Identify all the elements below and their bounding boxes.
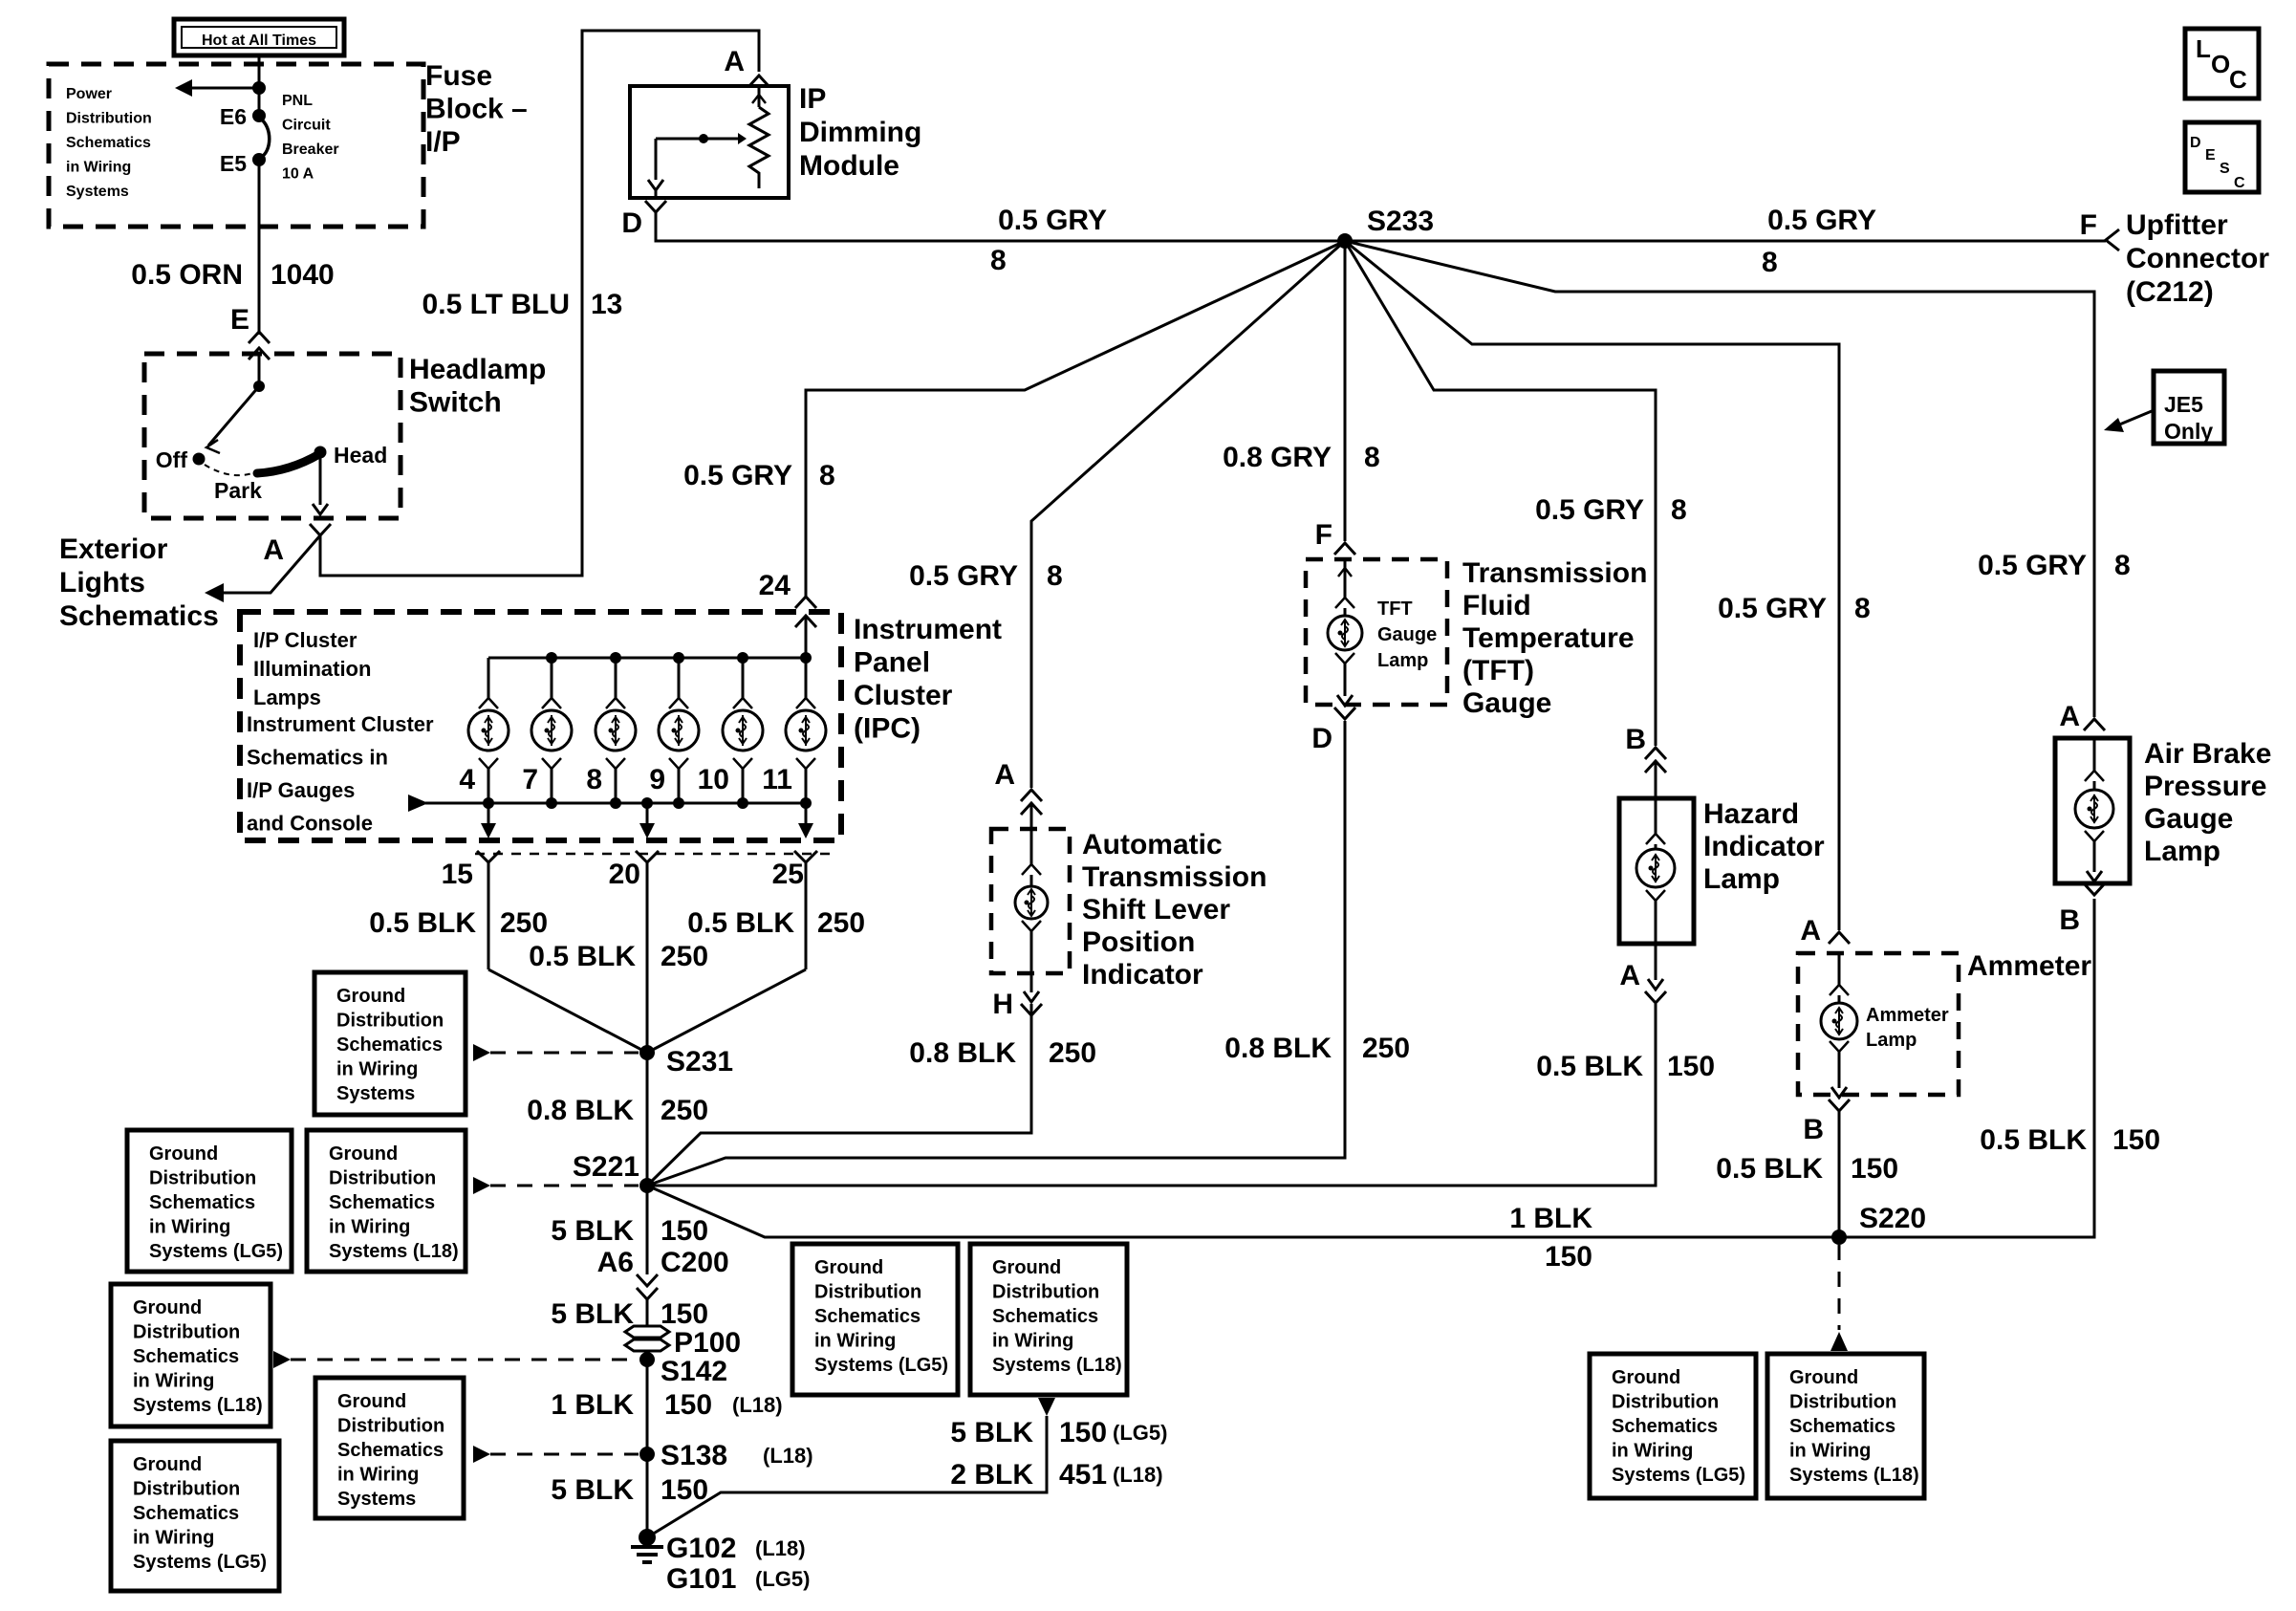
svg-text:Gauge: Gauge: [1377, 624, 1437, 645]
svg-text:A6: A6: [597, 1247, 634, 1278]
svg-text:F: F: [1315, 519, 1332, 551]
svg-text:Head: Head: [334, 443, 387, 468]
svg-text:Lamps: Lamps: [253, 686, 321, 709]
svg-text:F: F: [2080, 209, 2097, 241]
svg-text:150: 150: [1851, 1153, 1898, 1185]
svg-text:Air Brake: Air Brake: [2144, 738, 2271, 770]
svg-text:Systems (L18): Systems (L18): [1789, 1465, 1919, 1486]
svg-text:Ground: Ground: [133, 1454, 202, 1475]
svg-text:20: 20: [609, 859, 640, 890]
svg-text:L: L: [2196, 34, 2211, 63]
svg-text:in Wiring: in Wiring: [66, 160, 131, 176]
svg-text:S142: S142: [661, 1356, 727, 1387]
svg-text:15: 15: [442, 859, 473, 890]
svg-text:I/P: I/P: [425, 126, 461, 158]
svg-text:Ground: Ground: [814, 1257, 883, 1278]
svg-text:Distribution: Distribution: [336, 1011, 444, 1032]
svg-text:Module: Module: [799, 150, 899, 182]
svg-text:in Wiring: in Wiring: [337, 1465, 419, 1486]
svg-text:10 A: 10 A: [282, 166, 314, 183]
svg-text:Distribution: Distribution: [1612, 1392, 1719, 1413]
svg-text:(TFT): (TFT): [1462, 655, 1534, 686]
svg-text:250: 250: [1049, 1037, 1096, 1069]
svg-text:S221: S221: [573, 1151, 639, 1183]
svg-text:150: 150: [661, 1474, 708, 1506]
svg-text:Schematics: Schematics: [1612, 1416, 1718, 1437]
svg-text:C: C: [2229, 65, 2247, 94]
svg-text:TFT: TFT: [1377, 599, 1413, 620]
svg-text:Instrument: Instrument: [854, 614, 1002, 645]
svg-text:C: C: [2234, 175, 2245, 191]
svg-text:Distribution: Distribution: [149, 1168, 256, 1189]
svg-text:150: 150: [661, 1298, 708, 1330]
svg-text:Schematics: Schematics: [992, 1306, 1098, 1327]
svg-text:5 BLK: 5 BLK: [551, 1298, 634, 1330]
svg-text:Schematics: Schematics: [133, 1346, 239, 1367]
svg-text:0.5 GRY: 0.5 GRY: [1978, 550, 2087, 581]
svg-text:A: A: [724, 46, 745, 77]
svg-text:Distribution: Distribution: [814, 1282, 921, 1303]
svg-text:5 BLK: 5 BLK: [950, 1417, 1033, 1448]
svg-text:Systems: Systems: [337, 1489, 416, 1510]
svg-text:0.8 BLK: 0.8 BLK: [909, 1037, 1016, 1069]
svg-text:7: 7: [522, 764, 538, 795]
svg-text:Exterior: Exterior: [59, 533, 168, 565]
svg-text:451: 451: [1059, 1459, 1107, 1491]
svg-text:4: 4: [459, 764, 475, 795]
svg-text:0.5 BLK: 0.5 BLK: [529, 941, 636, 972]
svg-text:250: 250: [500, 907, 548, 939]
svg-text:S: S: [2220, 161, 2230, 177]
svg-text:JE5: JE5: [2164, 392, 2203, 417]
svg-text:Ground: Ground: [337, 1391, 406, 1412]
svg-text:C200: C200: [661, 1247, 729, 1278]
svg-text:Schematics: Schematics: [814, 1306, 921, 1327]
svg-text:D: D: [1311, 723, 1332, 754]
svg-text:Connector: Connector: [2126, 243, 2269, 274]
svg-text:9: 9: [649, 764, 665, 795]
svg-text:Hazard: Hazard: [1703, 798, 1799, 830]
svg-text:Indicator: Indicator: [1703, 831, 1825, 862]
svg-text:(C212): (C212): [2126, 276, 2214, 308]
svg-text:A: A: [263, 534, 284, 566]
svg-text:Ammeter: Ammeter: [1866, 1005, 1949, 1026]
svg-text:A: A: [2059, 701, 2080, 732]
svg-text:E: E: [230, 304, 249, 336]
svg-text:Schematics: Schematics: [149, 1192, 255, 1213]
svg-text:Distribution: Distribution: [1789, 1392, 1896, 1413]
svg-text:Ground: Ground: [992, 1257, 1061, 1278]
svg-text:0.5 LT BLU: 0.5 LT BLU: [422, 289, 570, 320]
svg-text:Transmission: Transmission: [1082, 861, 1267, 893]
svg-text:150: 150: [664, 1389, 712, 1421]
svg-text:0.5 BLK: 0.5 BLK: [1716, 1153, 1823, 1185]
svg-text:Ground: Ground: [149, 1143, 218, 1165]
svg-text:Instrument Cluster: Instrument Cluster: [247, 712, 434, 736]
svg-text:Cluster: Cluster: [854, 680, 953, 711]
svg-text:Automatic: Automatic: [1082, 829, 1223, 860]
svg-text:Ground: Ground: [336, 986, 405, 1007]
svg-text:D: D: [2190, 135, 2201, 151]
svg-text:8: 8: [1047, 560, 1063, 592]
svg-text:Block –: Block –: [425, 94, 528, 125]
svg-text:Panel: Panel: [854, 647, 930, 679]
svg-text:Systems: Systems: [336, 1083, 415, 1104]
svg-text:0.5 GRY: 0.5 GRY: [1535, 494, 1644, 526]
svg-text:Systems: Systems: [66, 184, 129, 200]
svg-text:Fuse: Fuse: [425, 60, 492, 92]
svg-text:Park: Park: [214, 478, 262, 503]
svg-text:24: 24: [759, 570, 791, 601]
svg-text:Schematics: Schematics: [337, 1440, 444, 1461]
svg-text:IP: IP: [799, 83, 826, 115]
svg-text:Off: Off: [156, 447, 188, 472]
svg-text:150: 150: [1059, 1417, 1107, 1448]
svg-text:Lights: Lights: [59, 567, 145, 599]
svg-text:Breaker: Breaker: [282, 142, 339, 158]
svg-text:and Console: and Console: [247, 812, 373, 836]
svg-text:PNL: PNL: [282, 93, 313, 109]
svg-text:0.5 GRY: 0.5 GRY: [683, 460, 792, 491]
svg-text:in Wiring: in Wiring: [1612, 1441, 1693, 1462]
svg-text:B: B: [1625, 724, 1646, 755]
svg-text:0.5 GRY: 0.5 GRY: [909, 560, 1018, 592]
svg-text:S231: S231: [666, 1046, 733, 1078]
svg-text:in Wiring: in Wiring: [133, 1371, 214, 1392]
svg-text:Switch: Switch: [409, 387, 502, 419]
svg-text:I/P Cluster: I/P Cluster: [253, 628, 357, 652]
svg-text:Pressure: Pressure: [2144, 771, 2266, 802]
svg-text:(L18): (L18): [1113, 1463, 1163, 1487]
svg-text:0.5 BLK: 0.5 BLK: [687, 907, 794, 939]
svg-text:A: A: [1800, 915, 1821, 947]
svg-text:A: A: [1619, 960, 1640, 991]
svg-text:Systems (LG5): Systems (LG5): [149, 1241, 283, 1262]
svg-text:8: 8: [1364, 442, 1380, 473]
svg-text:Temperature: Temperature: [1462, 622, 1635, 654]
svg-text:150: 150: [2112, 1124, 2160, 1156]
svg-text:Transmission: Transmission: [1462, 557, 1647, 589]
svg-text:Distribution: Distribution: [329, 1168, 436, 1189]
svg-text:8: 8: [1671, 494, 1687, 526]
svg-text:Fluid: Fluid: [1462, 590, 1531, 621]
svg-text:Indicator: Indicator: [1082, 959, 1203, 991]
svg-text:Distribution: Distribution: [133, 1322, 240, 1343]
svg-text:Ground: Ground: [1612, 1367, 1680, 1388]
svg-text:8: 8: [990, 245, 1007, 276]
svg-text:Hot at All Times: Hot at All Times: [202, 33, 316, 49]
svg-text:8: 8: [2114, 550, 2131, 581]
svg-text:Gauge: Gauge: [1462, 687, 1551, 719]
svg-text:150: 150: [661, 1215, 708, 1247]
svg-text:Schematics: Schematics: [66, 135, 151, 151]
svg-text:B: B: [1803, 1114, 1824, 1145]
svg-text:Schematics: Schematics: [336, 1034, 443, 1056]
svg-text:5 BLK: 5 BLK: [551, 1215, 634, 1247]
svg-text:0.5 BLK: 0.5 BLK: [1536, 1051, 1643, 1082]
svg-text:in Wiring: in Wiring: [1789, 1441, 1871, 1462]
svg-text:150: 150: [1545, 1241, 1592, 1273]
svg-text:Systems (L18): Systems (L18): [133, 1395, 263, 1416]
svg-text:Lamp: Lamp: [1703, 863, 1780, 895]
svg-text:11: 11: [762, 764, 792, 795]
svg-text:8: 8: [819, 460, 835, 491]
svg-text:5 BLK: 5 BLK: [551, 1474, 634, 1506]
svg-text:Circuit: Circuit: [282, 118, 331, 134]
svg-text:Lamp: Lamp: [2144, 836, 2220, 867]
svg-text:B: B: [2059, 904, 2080, 936]
svg-text:8: 8: [586, 764, 602, 795]
svg-text:Schematics: Schematics: [329, 1192, 435, 1213]
svg-text:0.5 GRY: 0.5 GRY: [1767, 205, 1876, 236]
svg-text:Shift Lever: Shift Lever: [1082, 894, 1230, 925]
svg-text:H: H: [992, 989, 1013, 1020]
svg-text:Only: Only: [2164, 419, 2213, 444]
svg-text:in Wiring: in Wiring: [149, 1217, 230, 1238]
svg-text:0.5 ORN: 0.5 ORN: [131, 259, 243, 291]
svg-text:Systems (LG5): Systems (LG5): [1612, 1465, 1745, 1486]
svg-text:25: 25: [772, 859, 804, 890]
svg-text:E6: E6: [220, 104, 247, 129]
svg-text:13: 13: [591, 289, 622, 320]
svg-text:E: E: [2205, 147, 2216, 163]
svg-text:8: 8: [1854, 593, 1871, 624]
svg-text:Systems (L18): Systems (L18): [329, 1241, 459, 1262]
svg-text:8: 8: [1762, 247, 1778, 278]
svg-text:1040: 1040: [271, 259, 335, 291]
svg-text:0.5 GRY: 0.5 GRY: [1718, 593, 1827, 624]
svg-text:Lamp: Lamp: [1866, 1030, 1917, 1051]
svg-text:Ammeter: Ammeter: [1967, 950, 2091, 982]
svg-text:Systems (LG5): Systems (LG5): [133, 1552, 267, 1573]
svg-text:250: 250: [661, 941, 708, 972]
svg-text:10: 10: [698, 764, 729, 795]
svg-text:1 BLK: 1 BLK: [551, 1389, 634, 1421]
svg-text:Distribution: Distribution: [337, 1416, 444, 1437]
svg-text:Illumination: Illumination: [253, 657, 371, 681]
svg-text:Position: Position: [1082, 926, 1195, 958]
svg-text:0.8 BLK: 0.8 BLK: [527, 1095, 634, 1126]
svg-text:0.5 BLK: 0.5 BLK: [369, 907, 476, 939]
svg-text:in Wiring: in Wiring: [133, 1528, 214, 1549]
svg-text:150: 150: [1667, 1051, 1715, 1082]
svg-text:P100: P100: [674, 1327, 741, 1359]
svg-text:in Wiring: in Wiring: [992, 1331, 1073, 1352]
svg-text:(L18): (L18): [755, 1536, 806, 1560]
svg-text:1 BLK: 1 BLK: [1509, 1203, 1592, 1234]
svg-text:D: D: [621, 207, 642, 239]
svg-text:0.5 GRY: 0.5 GRY: [998, 205, 1107, 236]
svg-text:Systems (L18): Systems (L18): [992, 1355, 1122, 1376]
svg-text:S220: S220: [1859, 1203, 1926, 1234]
svg-text:0.8 GRY: 0.8 GRY: [1223, 442, 1332, 473]
svg-text:Schematics: Schematics: [133, 1503, 239, 1524]
svg-text:Upfitter: Upfitter: [2126, 209, 2228, 241]
svg-text:0.8 BLK: 0.8 BLK: [1224, 1033, 1332, 1064]
svg-text:G101: G101: [666, 1563, 736, 1595]
svg-text:250: 250: [661, 1095, 708, 1126]
svg-text:in Wiring: in Wiring: [336, 1059, 418, 1080]
svg-text:Distribution: Distribution: [66, 111, 152, 127]
svg-text:I/P Gauges: I/P Gauges: [247, 778, 355, 802]
svg-text:G102: G102: [666, 1533, 736, 1564]
svg-text:E5: E5: [220, 151, 247, 176]
svg-text:(IPC): (IPC): [854, 713, 921, 745]
svg-text:Dimming: Dimming: [799, 117, 921, 148]
svg-text:Distribution: Distribution: [133, 1479, 240, 1500]
svg-text:Distribution: Distribution: [992, 1282, 1099, 1303]
svg-text:Ground: Ground: [133, 1297, 202, 1318]
svg-text:A: A: [994, 759, 1015, 791]
svg-text:250: 250: [817, 907, 865, 939]
svg-text:in Wiring: in Wiring: [329, 1217, 410, 1238]
svg-text:Gauge: Gauge: [2144, 803, 2233, 835]
svg-text:(L18): (L18): [763, 1444, 813, 1468]
svg-text:(LG5): (LG5): [755, 1567, 810, 1591]
svg-text:Schematics: Schematics: [1789, 1416, 1895, 1437]
svg-text:Systems (LG5): Systems (LG5): [814, 1355, 948, 1376]
svg-text:Power: Power: [66, 86, 112, 102]
svg-text:0.5 BLK: 0.5 BLK: [1980, 1124, 2087, 1156]
svg-text:Headlamp: Headlamp: [409, 354, 546, 385]
svg-text:2 BLK: 2 BLK: [950, 1459, 1033, 1491]
svg-text:in Wiring: in Wiring: [814, 1331, 896, 1352]
svg-text:S233: S233: [1367, 206, 1434, 237]
svg-text:(LG5): (LG5): [1113, 1421, 1167, 1445]
svg-text:S138: S138: [661, 1440, 727, 1471]
svg-text:Schematics in: Schematics in: [247, 746, 388, 770]
svg-text:O: O: [2211, 50, 2230, 78]
svg-text:Schematics: Schematics: [59, 600, 219, 632]
svg-text:250: 250: [1362, 1033, 1410, 1064]
svg-text:(L18): (L18): [732, 1393, 783, 1417]
svg-text:Lamp: Lamp: [1377, 650, 1428, 671]
svg-text:Ground: Ground: [329, 1143, 398, 1165]
svg-text:Ground: Ground: [1789, 1367, 1858, 1388]
